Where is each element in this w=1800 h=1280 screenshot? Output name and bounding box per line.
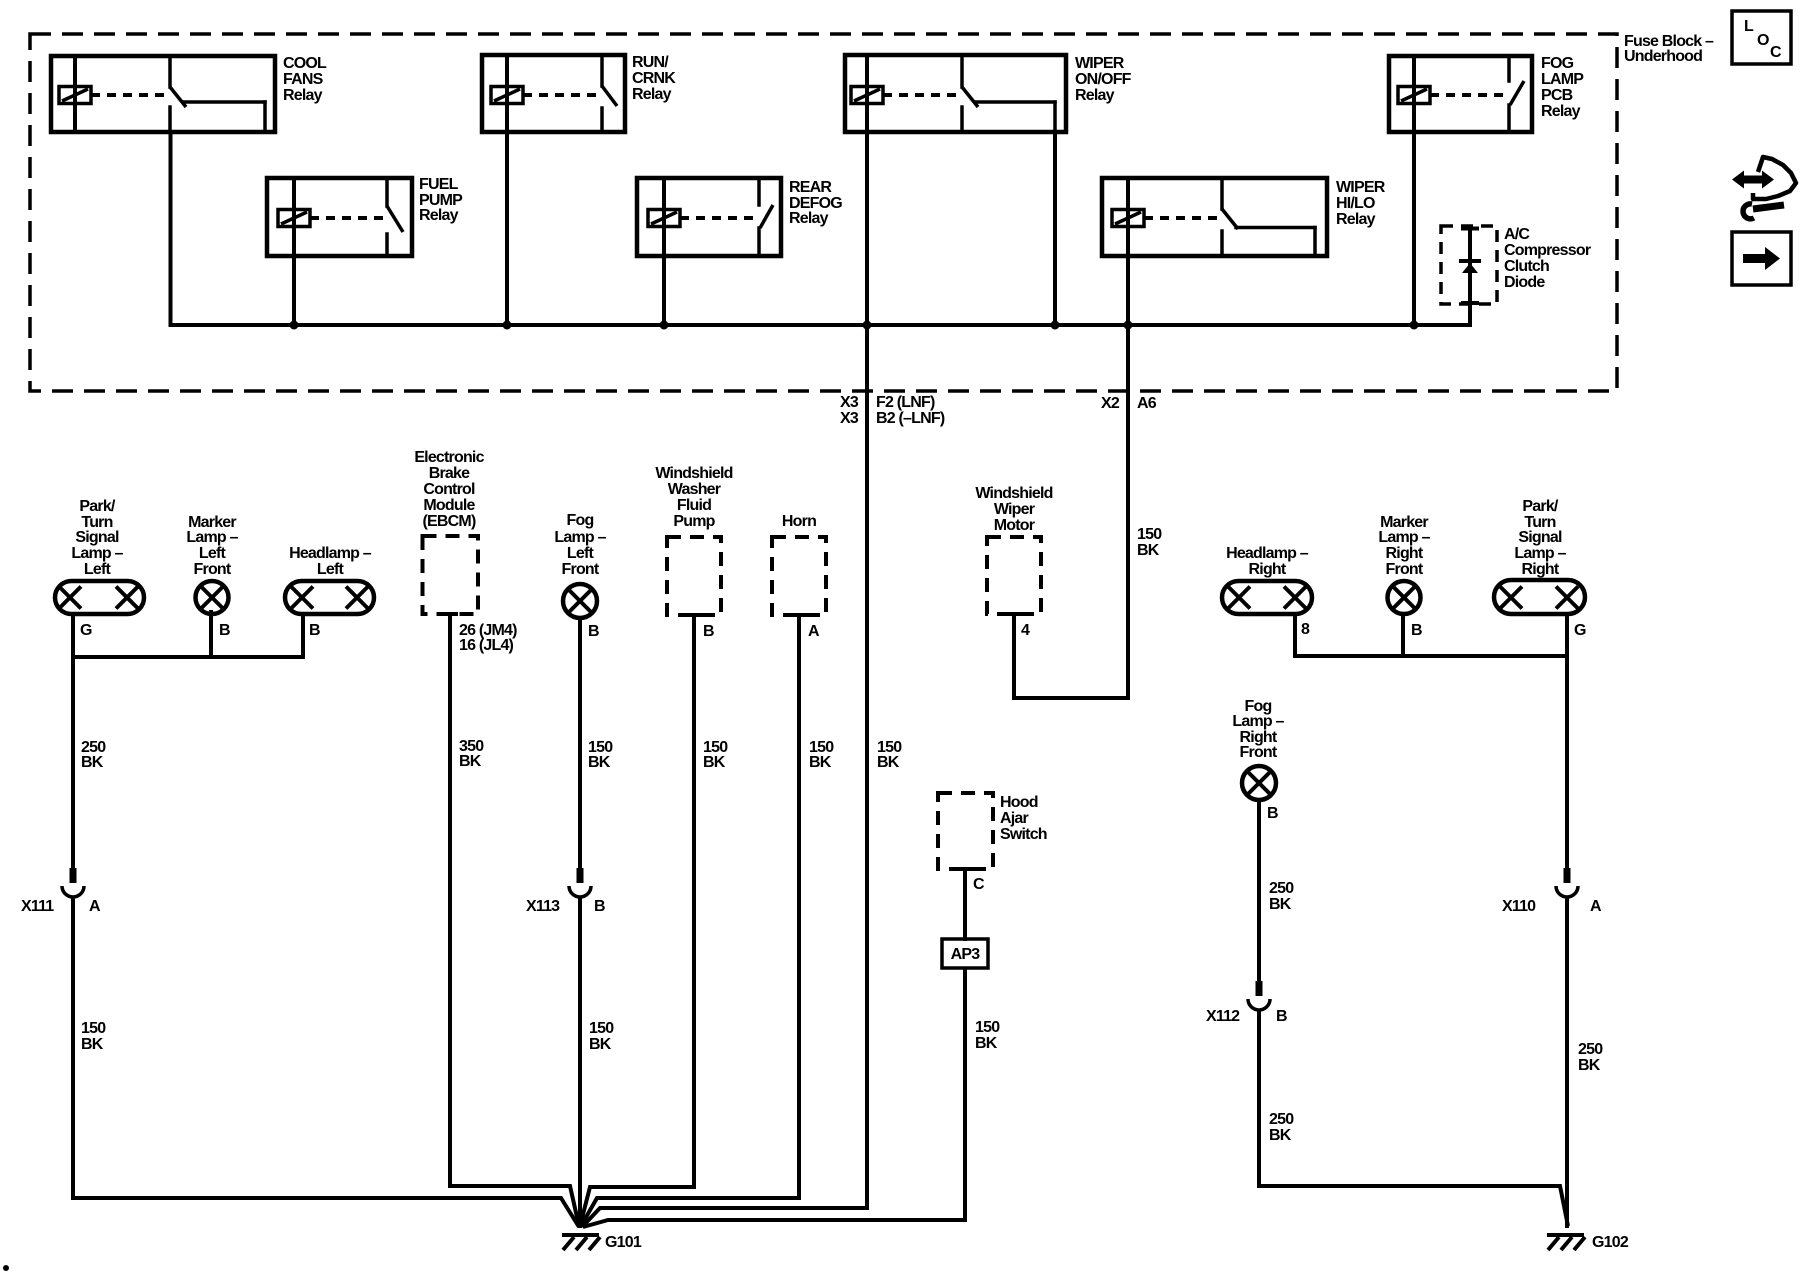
svg-text:Relay: Relay (1336, 211, 1376, 228)
svg-text:8: 8 (1301, 621, 1310, 638)
svg-text:150: 150 (975, 1019, 1000, 1036)
svg-text:Left: Left (567, 545, 595, 562)
svg-text:Relay: Relay (283, 87, 323, 104)
svg-text:RUN/: RUN/ (632, 54, 669, 71)
svg-text:Left: Left (317, 561, 345, 578)
svg-text:Right: Right (1522, 561, 1560, 578)
svg-text:WIPER: WIPER (1075, 55, 1125, 72)
svg-text:BK: BK (1269, 896, 1292, 913)
svg-text:Park/: Park/ (1522, 498, 1558, 515)
svg-text:A: A (1590, 898, 1602, 915)
svg-text:Front: Front (562, 561, 600, 578)
svg-text:Brake: Brake (429, 465, 470, 482)
svg-text:G102: G102 (1592, 1234, 1629, 1251)
svg-text:LAMP: LAMP (1541, 71, 1584, 88)
svg-text:PCB: PCB (1541, 87, 1573, 104)
svg-text:X111: X111 (21, 898, 54, 915)
svg-text:Underhood: Underhood (1624, 48, 1702, 65)
svg-text:Horn: Horn (782, 513, 816, 530)
svg-text:B: B (219, 622, 230, 639)
svg-text:WIPER: WIPER (1336, 179, 1386, 196)
svg-text:Control: Control (423, 481, 475, 498)
svg-text:BK: BK (877, 754, 900, 771)
svg-text:COOL: COOL (283, 55, 327, 72)
svg-text:G101: G101 (605, 1234, 642, 1251)
svg-text:B: B (1276, 1008, 1287, 1025)
svg-text:BK: BK (588, 754, 611, 771)
svg-text:(EBCM): (EBCM) (423, 513, 476, 530)
svg-text:B: B (594, 898, 605, 915)
svg-text:X3: X3 (840, 394, 859, 411)
svg-text:BK: BK (1137, 542, 1160, 559)
svg-text:ON/OFF: ON/OFF (1075, 71, 1132, 88)
svg-text:HI/LO: HI/LO (1336, 195, 1375, 212)
svg-text:B: B (1267, 805, 1278, 822)
svg-text:CRNK: CRNK (632, 70, 676, 87)
svg-text:C: C (1770, 44, 1782, 61)
svg-text:Wiper: Wiper (994, 501, 1035, 518)
svg-text:X110: X110 (1502, 898, 1536, 915)
svg-text:G: G (1574, 622, 1586, 639)
svg-text:Right: Right (1386, 545, 1424, 562)
svg-text:Signal: Signal (1518, 529, 1562, 546)
svg-text:BK: BK (589, 1036, 612, 1053)
svg-text:BK: BK (809, 754, 832, 771)
svg-text:F2 (LNF): F2 (LNF) (876, 394, 935, 411)
svg-text:Park/: Park/ (79, 498, 115, 515)
svg-text:BK: BK (975, 1035, 998, 1052)
svg-text:A6: A6 (1137, 395, 1157, 412)
svg-text:FANS: FANS (283, 71, 324, 88)
svg-text:4: 4 (1021, 622, 1030, 639)
svg-text:A/C: A/C (1504, 226, 1530, 243)
svg-text:Hood: Hood (1000, 794, 1038, 811)
svg-text:REAR: REAR (789, 179, 832, 196)
svg-text:250: 250 (1269, 1111, 1294, 1128)
svg-text:Left: Left (84, 561, 112, 578)
svg-text:Front: Front (194, 561, 232, 578)
svg-text:150: 150 (81, 1020, 106, 1037)
svg-text:Front: Front (1386, 561, 1424, 578)
svg-text:150: 150 (1137, 526, 1162, 543)
svg-text:A: A (89, 898, 101, 915)
svg-text:Signal: Signal (75, 529, 119, 546)
svg-text:Windshield: Windshield (975, 485, 1052, 502)
svg-text:Washer: Washer (668, 481, 721, 498)
svg-text:Relay: Relay (419, 207, 459, 224)
svg-text:Lamp –: Lamp – (1514, 545, 1566, 562)
svg-text:AP3: AP3 (951, 946, 981, 963)
svg-text:Relay: Relay (1075, 87, 1115, 104)
svg-text:A: A (808, 623, 820, 640)
svg-text:Relay: Relay (789, 210, 829, 227)
svg-text:X2: X2 (1101, 395, 1120, 412)
svg-text:FOG: FOG (1541, 55, 1574, 72)
svg-text:BK: BK (459, 753, 482, 770)
svg-text:X113: X113 (526, 898, 560, 915)
svg-text:Diode: Diode (1504, 274, 1545, 291)
svg-text:B: B (1411, 622, 1422, 639)
svg-text:250: 250 (1578, 1041, 1603, 1058)
svg-text:Windshield: Windshield (655, 465, 732, 482)
svg-text:Lamp –: Lamp – (1378, 529, 1430, 546)
svg-text:Left: Left (199, 545, 227, 562)
svg-text:B2 (–LNF): B2 (–LNF) (876, 410, 945, 427)
svg-text:O: O (1757, 32, 1769, 49)
svg-text:Headlamp –: Headlamp – (289, 545, 372, 562)
svg-text:BK: BK (1578, 1057, 1601, 1074)
svg-text:Pump: Pump (673, 513, 715, 530)
svg-text:G: G (80, 622, 92, 639)
svg-text:Relay: Relay (1541, 103, 1581, 120)
svg-text:B: B (309, 622, 320, 639)
svg-text:Fog: Fog (567, 512, 594, 529)
svg-text:Lamp –: Lamp – (71, 545, 123, 562)
svg-text:BK: BK (1269, 1127, 1292, 1144)
svg-text:150: 150 (589, 1020, 614, 1037)
svg-text:Headlamp –: Headlamp – (1226, 545, 1309, 562)
svg-text:B: B (588, 623, 599, 640)
svg-text:X3: X3 (840, 410, 859, 427)
svg-text:16 (JL4): 16 (JL4) (459, 637, 514, 654)
svg-text:Compressor: Compressor (1504, 242, 1591, 259)
svg-text:Right: Right (1249, 561, 1287, 578)
svg-text:Motor: Motor (994, 517, 1035, 534)
svg-text:Fluid: Fluid (677, 497, 711, 514)
svg-text:Relay: Relay (632, 86, 672, 103)
svg-text:Front: Front (1240, 744, 1278, 761)
svg-text:Ajar: Ajar (1000, 810, 1028, 827)
svg-text:BK: BK (703, 754, 726, 771)
svg-text:FUEL: FUEL (419, 176, 459, 193)
svg-text:B: B (703, 623, 714, 640)
svg-text:BK: BK (81, 754, 104, 771)
svg-text:Lamp –: Lamp – (554, 529, 606, 546)
svg-text:Lamp –: Lamp – (186, 529, 238, 546)
svg-text:Module: Module (423, 497, 475, 514)
svg-text:X112: X112 (1206, 1008, 1240, 1025)
svg-text:Lamp –: Lamp – (1232, 713, 1284, 730)
svg-text:Electronic: Electronic (414, 449, 484, 466)
svg-text:C: C (973, 876, 985, 893)
svg-text:Switch: Switch (1000, 826, 1047, 843)
svg-text:L: L (1744, 18, 1754, 35)
svg-text:250: 250 (1269, 880, 1294, 897)
svg-text:BK: BK (81, 1036, 104, 1053)
svg-text:Clutch: Clutch (1504, 258, 1549, 275)
